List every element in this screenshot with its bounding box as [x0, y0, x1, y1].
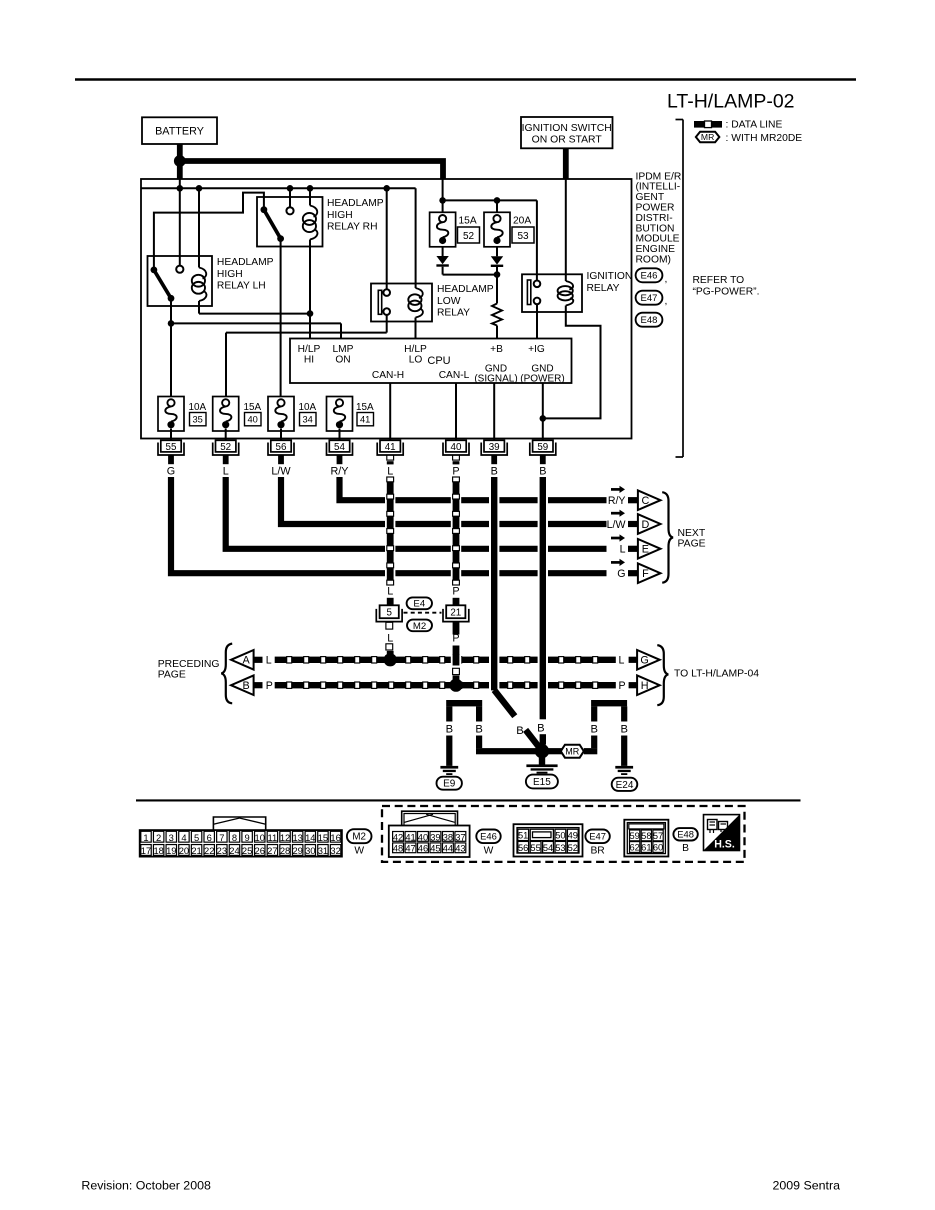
label wire colour P — [452, 465, 459, 477]
svg-text:7: 7 — [219, 832, 224, 843]
svg-text:28: 28 — [280, 845, 290, 856]
svg-text:55: 55 — [530, 843, 540, 853]
ground label E9 — [437, 777, 462, 790]
MR hexagon — [561, 745, 584, 758]
relay box headlamp high LH — [148, 256, 213, 306]
legend data-line symbol — [694, 121, 722, 128]
svg-text:NEXT: NEXT — [678, 528, 706, 539]
ignition switch box — [521, 117, 613, 148]
svg-text:L/W: L/W — [607, 519, 626, 531]
wire fuse 41 to pin — [339, 429, 341, 441]
connector table M2 — [140, 817, 342, 857]
svg-text:E: E — [642, 544, 649, 556]
svg-text:H/LP: H/LP — [404, 344, 427, 355]
wire fuse 53 to diode — [496, 247, 498, 256]
wire battery to fuse 52 — [442, 179, 444, 215]
svg-text:20: 20 — [179, 845, 189, 856]
wire ignition relay out to CPU +IG — [536, 304, 538, 338]
relay low contact bar — [378, 290, 381, 314]
relay low contact points — [383, 289, 390, 315]
svg-text:52: 52 — [220, 442, 231, 453]
svg-text:56: 56 — [518, 843, 528, 853]
svg-text:24: 24 — [229, 845, 239, 856]
label L above connector 5 — [387, 586, 393, 598]
CPU box — [290, 339, 572, 385]
node fuse bus j2 — [494, 197, 501, 204]
wire E9 leg lower — [446, 736, 452, 766]
arrow E next page — [638, 539, 661, 559]
svg-text:34: 34 — [303, 415, 313, 425]
svg-text:D: D — [641, 519, 649, 531]
svg-text:L: L — [619, 655, 625, 667]
stub arrow D — [628, 521, 638, 527]
node H/LP HI junction — [307, 310, 314, 317]
connector label E48 table — [673, 828, 697, 840]
label E48 colour B — [682, 843, 689, 854]
svg-text:21: 21 — [450, 608, 461, 619]
svg-text:HEADLAMP: HEADLAMP — [217, 257, 274, 268]
svg-text:53: 53 — [555, 843, 565, 853]
svg-text:CAN-H: CAN-H — [372, 370, 404, 381]
svg-text:E24: E24 — [616, 780, 634, 791]
svg-text:RELAY LH: RELAY LH — [217, 281, 266, 292]
connector label M2 table — [347, 829, 372, 843]
footer revision — [81, 1178, 211, 1192]
svg-text:E46: E46 — [641, 271, 658, 282]
label E46 colour W — [484, 846, 494, 857]
svg-text:(INTELLI-: (INTELLI- — [636, 182, 681, 193]
brace to lamp-04 — [657, 645, 668, 705]
wire to CPU LMP ON — [171, 323, 341, 338]
connector 5 — [376, 605, 402, 621]
svg-text:(SIGNAL): (SIGNAL) — [474, 373, 517, 384]
svg-text:B: B — [682, 843, 689, 854]
svg-text:57: 57 — [653, 831, 663, 841]
wire diode D2 out — [496, 267, 498, 275]
node ground power junction — [540, 415, 547, 422]
relay RH switch blade — [261, 206, 285, 242]
svg-text:58: 58 — [641, 831, 651, 841]
svg-text:E48: E48 — [641, 315, 658, 326]
data stub pin L — [387, 455, 394, 464]
svg-text:RELAY: RELAY — [437, 308, 470, 319]
brace preceding page — [221, 644, 232, 704]
arrow D next page — [638, 514, 661, 534]
pin 55 — [158, 440, 184, 455]
svg-text:27: 27 — [267, 845, 277, 856]
svg-text:R/Y: R/Y — [331, 465, 349, 477]
battery — [142, 117, 217, 144]
svg-text:E4: E4 — [413, 599, 425, 610]
svg-text:B: B — [620, 723, 627, 735]
svg-text:8: 8 — [232, 832, 237, 843]
svg-text:B: B — [539, 465, 546, 477]
svg-text:15A: 15A — [459, 216, 477, 227]
label L stub before arrow G — [619, 655, 637, 667]
svg-text:IPDM E/R: IPDM E/R — [636, 171, 682, 182]
svg-text:L: L — [223, 465, 229, 477]
svg-text:PAGE: PAGE — [678, 539, 706, 550]
label fuse 34 — [299, 402, 317, 426]
wire L data column lower — [386, 622, 394, 656]
svg-text:CPU: CPU — [427, 355, 450, 367]
svg-text:45: 45 — [430, 844, 440, 854]
svg-text:W: W — [354, 846, 364, 857]
svg-text:HIGH: HIGH — [217, 269, 243, 280]
label headlamp low relay — [437, 284, 494, 318]
arrow H to lamp-04 — [637, 675, 660, 695]
svg-text:MR: MR — [701, 132, 714, 142]
label headlamp high relay LH — [217, 257, 274, 291]
resistor R1 — [492, 304, 502, 326]
svg-text:MODULE: MODULE — [636, 234, 680, 245]
relay low coil — [408, 288, 423, 318]
svg-text:49: 49 — [568, 831, 578, 841]
wire bus A to RH relay coil — [309, 188, 311, 205]
wire MR leg to hexagon — [584, 736, 598, 755]
wire CAN-L data column upper — [451, 477, 461, 605]
connector 21 — [443, 605, 469, 621]
relay box ignition — [522, 274, 582, 312]
label wire colour L — [387, 465, 393, 477]
svg-text:2009 Sentra: 2009 Sentra — [773, 1178, 841, 1192]
wire GND POWER to pin 59 — [542, 383, 544, 440]
fuse 15A 41 — [327, 397, 353, 432]
wire MR leg upper — [591, 706, 597, 721]
svg-text:17: 17 — [141, 845, 151, 856]
legend data line text — [726, 119, 783, 130]
label wire colour B — [491, 465, 498, 477]
pin 52 — [213, 440, 239, 455]
relay box headlamp low — [371, 284, 432, 322]
wire battery feed down — [177, 161, 183, 179]
svg-text:55: 55 — [166, 442, 177, 453]
label G at arrow F — [617, 568, 625, 580]
label fuse 52 — [458, 216, 480, 244]
wire E15 node to hexagon — [545, 748, 562, 754]
svg-text:E47: E47 — [641, 293, 658, 304]
svg-text:,: , — [665, 274, 668, 285]
svg-text:21: 21 — [191, 845, 201, 856]
label B E24 leg — [620, 723, 627, 735]
wire RH coil to CPU H/LP HI — [309, 240, 311, 339]
label wire colour L — [223, 465, 229, 477]
svg-text:30: 30 — [305, 845, 315, 856]
svg-text:IGNITION: IGNITION — [587, 271, 633, 282]
svg-text:PRECEDING: PRECEDING — [158, 659, 220, 670]
svg-text:A: A — [242, 655, 250, 667]
svg-text:40: 40 — [418, 832, 428, 842]
wire to resistor — [496, 275, 498, 304]
svg-text:LO: LO — [409, 354, 423, 365]
svg-text:13: 13 — [292, 832, 302, 843]
brace next page — [662, 492, 673, 583]
H.S. view box — [704, 815, 740, 851]
svg-text:B: B — [590, 723, 597, 735]
wire low relay out to fuse 40 — [226, 315, 387, 399]
fuse 15A 40 — [213, 397, 239, 432]
wire B from pin 39 — [489, 477, 499, 690]
svg-text:19: 19 — [166, 845, 176, 856]
svg-text:B: B — [537, 722, 544, 734]
svg-text:61: 61 — [641, 843, 651, 853]
label L at arrow E — [620, 544, 626, 556]
label M2 colour W — [354, 846, 364, 857]
wire stub pin L225.7 — [223, 456, 229, 465]
svg-text:POWER: POWER — [636, 203, 675, 214]
pin 39 — [481, 440, 507, 455]
wire ignition switch to relay coil — [565, 179, 567, 281]
svg-text:E48: E48 — [677, 829, 694, 840]
svg-text:60: 60 — [653, 843, 663, 853]
svg-text:16: 16 — [330, 832, 340, 843]
relay ignition contact bar — [527, 280, 530, 305]
svg-text:TO LT-H/LAMP-04: TO LT-H/LAMP-04 — [674, 669, 759, 680]
svg-text:54: 54 — [334, 442, 345, 453]
svg-text:41: 41 — [360, 415, 370, 425]
IPDM E/R label text — [636, 171, 682, 265]
svg-text:38: 38 — [443, 832, 453, 842]
svg-text:ENGINE: ENGINE — [636, 244, 676, 255]
wire L/W run to D — [281, 477, 607, 524]
wire CAN-H data column upper — [385, 477, 395, 605]
wire battery feed to fuses — [180, 161, 443, 179]
wire CAN-L to pin 40 — [455, 383, 457, 440]
wire bus A to RH relay contact — [289, 188, 291, 207]
wire relay pivots interconnect — [154, 193, 264, 270]
top border rule — [75, 78, 856, 81]
wire fuse 35 to pin — [170, 429, 172, 441]
svg-text:BR: BR — [590, 846, 604, 857]
wire E24 leg upper — [621, 706, 627, 721]
wire to fuse 53 — [496, 200, 498, 214]
wire E9 leg upper — [446, 706, 452, 721]
relay LH switch blade — [151, 267, 175, 302]
label wire colour B — [539, 465, 546, 477]
label P above connector 21 — [452, 586, 459, 598]
svg-text:41: 41 — [385, 442, 396, 453]
direction arrow C — [611, 486, 625, 493]
svg-text:B: B — [491, 465, 498, 477]
svg-text:L: L — [266, 655, 272, 667]
svg-text:BATTERY: BATTERY — [155, 126, 204, 138]
svg-text:+B: +B — [490, 344, 503, 355]
wire fuse 40 to pin — [225, 429, 227, 441]
wire ignition coil to ground net — [543, 306, 601, 419]
wire R/Y run to C — [340, 477, 607, 500]
label B pin 59 column — [537, 722, 544, 734]
svg-text:9: 9 — [245, 832, 250, 843]
connector label E46 — [636, 268, 668, 285]
IPDM E/R box — [141, 179, 632, 439]
fuse 15A 52 — [430, 212, 456, 247]
svg-text:B: B — [516, 725, 523, 737]
svg-text:B: B — [242, 680, 249, 692]
wire E24 leg lower — [621, 736, 627, 766]
svg-text:M2: M2 — [352, 832, 366, 843]
svg-text:W: W — [484, 846, 494, 857]
svg-text:R/Y: R/Y — [608, 495, 626, 507]
svg-text:ON OR START: ON OR START — [532, 135, 603, 146]
wire stub pin B542.8 — [540, 456, 546, 465]
svg-text:LMP: LMP — [333, 344, 354, 355]
pin 40 — [443, 440, 469, 455]
svg-text:LOW: LOW — [437, 296, 461, 307]
ground E15 — [526, 764, 557, 773]
svg-text:: WITH MR20DE: : WITH MR20DE — [726, 133, 803, 144]
wire CAN-H bus — [275, 655, 616, 664]
svg-text:BUTION: BUTION — [636, 223, 675, 234]
label B E15 left leg — [475, 723, 482, 735]
wire ignition switch feed — [563, 148, 569, 179]
svg-text:RELAY: RELAY — [587, 283, 620, 294]
label next page — [678, 528, 706, 549]
relay ignition coil — [558, 281, 574, 306]
bracket refer-to — [676, 120, 684, 458]
relay LH coil — [192, 268, 207, 302]
svg-text:H: H — [641, 680, 649, 692]
separator rule — [136, 799, 801, 801]
pin 41 — [377, 440, 403, 455]
wire bus A to LH relay coil — [198, 188, 200, 267]
svg-text:P: P — [452, 586, 459, 598]
svg-text:HI: HI — [304, 354, 314, 365]
wire P data column lower — [452, 622, 459, 656]
svg-text:51: 51 — [518, 831, 528, 841]
svg-text:RELAY RH: RELAY RH — [327, 222, 378, 233]
wire battery to LH relay contact — [179, 179, 181, 266]
svg-text:12: 12 — [280, 832, 290, 843]
wire E15 left leg upper — [476, 706, 482, 721]
svg-text:26: 26 — [255, 845, 265, 856]
node diode junction — [494, 271, 501, 278]
wire LH coil to H/LP HI — [199, 301, 310, 314]
label ignition relay — [587, 271, 633, 294]
svg-text:E46: E46 — [480, 831, 497, 842]
svg-text:LT-H/LAMP-02: LT-H/LAMP-02 — [667, 91, 795, 113]
title LT-H/LAMP-02 — [667, 91, 795, 113]
label E47 colour BR — [590, 846, 604, 857]
svg-text:44: 44 — [443, 844, 453, 854]
label P after arrow B — [266, 680, 273, 692]
stub arrow B — [254, 682, 263, 688]
arrow A preceding page — [231, 650, 254, 670]
svg-text:P: P — [452, 633, 459, 645]
ground label E15 — [526, 775, 558, 789]
wire bus A to low relay contact — [386, 188, 388, 289]
svg-text:52: 52 — [568, 843, 578, 853]
svg-text:G: G — [167, 465, 175, 477]
label fuse 53 — [512, 216, 534, 244]
legend MR hexagon — [696, 132, 720, 143]
wire resistor to +B — [496, 326, 498, 339]
svg-text:54: 54 — [543, 843, 553, 853]
wire stub pin B494.2 — [491, 456, 497, 465]
svg-text:HEADLAMP: HEADLAMP — [327, 198, 384, 209]
svg-text:“PG-POWER”.: “PG-POWER”. — [693, 287, 760, 298]
footer model — [773, 1178, 841, 1192]
wire CAN-L bus — [275, 681, 616, 690]
svg-text:10: 10 — [255, 832, 265, 843]
svg-text:P: P — [266, 680, 273, 692]
svg-text:10A: 10A — [299, 402, 317, 413]
dashed connector group box — [382, 806, 745, 862]
svg-text:50: 50 — [555, 831, 565, 841]
data stub pin P — [453, 455, 460, 464]
wire ground bracket right top — [591, 700, 627, 706]
svg-text:22: 22 — [204, 845, 214, 856]
arrow C next page — [638, 490, 661, 510]
wire diode D1 out — [443, 267, 497, 275]
relay ignition contact points — [534, 281, 541, 305]
label R/Y at arrow C — [608, 495, 626, 507]
node E15 ground junction — [535, 744, 549, 758]
wire E15 left leg to node — [476, 736, 536, 755]
ground E9 — [440, 766, 458, 775]
svg-text:40: 40 — [248, 415, 258, 425]
stub arrow C — [628, 497, 638, 503]
svg-text:ROOM): ROOM) — [636, 255, 671, 266]
label to LT-H/LAMP-04 — [674, 669, 759, 680]
svg-text:25: 25 — [242, 845, 252, 856]
ground E24 — [615, 766, 633, 775]
svg-text:37: 37 — [455, 832, 465, 842]
arrow G to lamp-04 — [637, 650, 660, 670]
svg-text:46: 46 — [418, 844, 428, 854]
svg-text:PAGE: PAGE — [158, 670, 186, 681]
wire fuse 52 to diode — [442, 247, 444, 256]
refer to PG-POWER text — [693, 275, 760, 298]
svg-text:15A: 15A — [244, 402, 262, 413]
label B MR leg — [590, 723, 597, 735]
diode D1 — [436, 256, 448, 267]
svg-text:40: 40 — [451, 442, 462, 453]
svg-text:39: 39 — [430, 832, 440, 842]
label fuse 40 — [244, 402, 262, 426]
wire RH blade to fuse 34 — [280, 239, 282, 399]
svg-text:10A: 10A — [189, 402, 207, 413]
connector label E47 — [636, 291, 668, 308]
direction arrow F — [611, 559, 625, 566]
svg-text:L: L — [387, 633, 393, 645]
svg-text:Revision: October 2008: Revision: October 2008 — [81, 1178, 211, 1192]
svg-text:E9: E9 — [443, 779, 456, 790]
svg-text:15: 15 — [318, 832, 328, 843]
svg-text:11: 11 — [268, 832, 278, 843]
svg-text:B: B — [475, 723, 482, 735]
svg-text:35: 35 — [193, 415, 203, 425]
connector label E46 table — [476, 830, 500, 844]
ground label E24 — [612, 778, 638, 791]
wire stub pin R/Y339.5 — [337, 456, 343, 465]
fuse 10A 35 — [158, 397, 184, 432]
svg-text:IGNITION SWITCH: IGNITION SWITCH — [522, 123, 612, 134]
svg-text:L: L — [387, 465, 393, 477]
direction arrow E — [611, 534, 625, 541]
connector label E4 — [407, 597, 432, 609]
pin 54 — [327, 440, 353, 455]
wire P data column crossing — [451, 654, 461, 680]
wire ground bracket left top — [446, 700, 482, 706]
relay LH contact — [176, 266, 183, 273]
svg-text:29: 29 — [292, 845, 302, 856]
label headlamp high relay RH — [327, 198, 384, 232]
svg-text:L: L — [387, 586, 393, 598]
wire B from pin 59 — [538, 477, 548, 745]
label wire colour L/W — [271, 465, 291, 477]
wire stub pin G171 — [168, 456, 174, 465]
pin 59 — [530, 440, 556, 455]
